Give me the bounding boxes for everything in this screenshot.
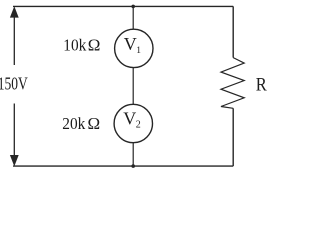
svg-text:10k: 10k [63, 35, 86, 54]
svg-text:2: 2 [136, 120, 141, 131]
svg-text:R: R [256, 75, 267, 96]
svg-text:150V: 150V [0, 74, 28, 94]
svg-text:20k: 20k [62, 114, 85, 133]
svg-text:Ω: Ω [88, 35, 101, 54]
svg-text:V: V [124, 34, 137, 54]
svg-text:1: 1 [136, 46, 141, 56]
svg-text:Ω: Ω [88, 114, 101, 133]
svg-text:V: V [123, 109, 136, 129]
